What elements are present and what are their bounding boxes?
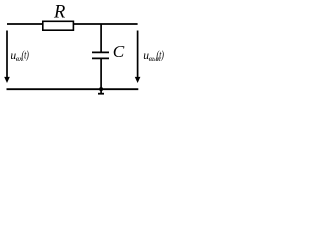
- svg-text:R: R: [53, 2, 65, 22]
- input label u_vx(t): [10, 50, 29, 64]
- input voltage arrow u_vx: [4, 31, 10, 84]
- output voltage arrow u_vyx: [135, 31, 141, 84]
- capacitor C bottom plate: [92, 57, 109, 59]
- resistor R: [43, 21, 74, 30]
- wire capacitor bottom lead: [100, 58, 102, 93]
- capacitor C top plate: [92, 51, 109, 53]
- wire top-right segment: [73, 23, 137, 25]
- wire bottom rail: [7, 88, 139, 90]
- svg-text:(t): (t): [22, 50, 30, 62]
- output label u_vyx(t): [143, 50, 164, 64]
- junction dot at capacitor/bottom rail: [99, 87, 103, 91]
- wire top-left segment: [7, 23, 43, 25]
- svg-text:(t): (t): [156, 50, 164, 62]
- svg-text:C: C: [113, 42, 125, 61]
- ground: [98, 93, 104, 95]
- wire capacitor top lead: [100, 24, 102, 52]
